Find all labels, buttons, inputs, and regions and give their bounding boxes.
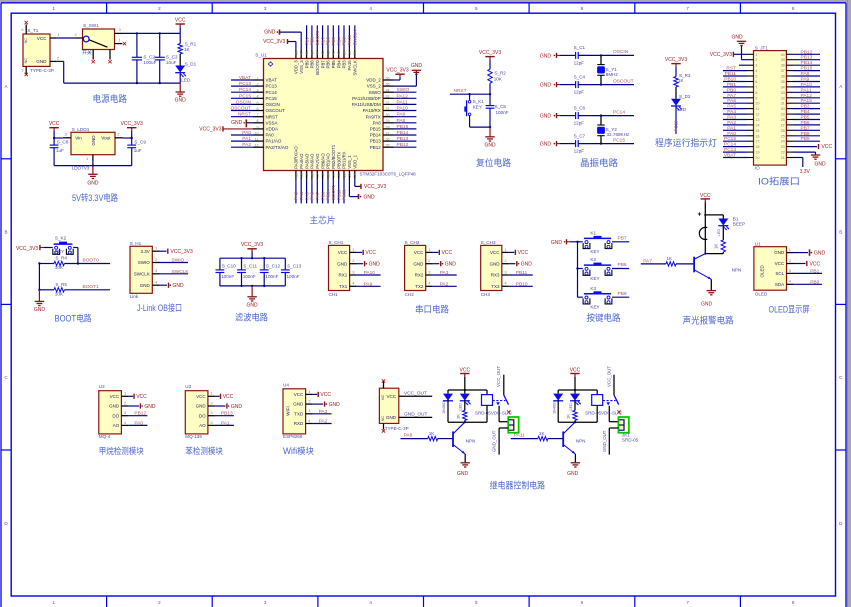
svg-text:PB7: PB7	[320, 60, 325, 69]
svg-text:3: 3	[264, 600, 267, 605]
connector S_H1 Link body	[130, 241, 153, 299]
net label PC15	[613, 137, 625, 143]
svg-text:25: 25	[386, 144, 390, 148]
svg-text:PA15: PA15	[801, 98, 813, 104]
svg-text:RXD: RXD	[294, 421, 304, 426]
row label C left	[4, 375, 8, 380]
svg-text:GND: GND	[144, 404, 156, 410]
svg-text:K1: K1	[590, 231, 596, 236]
title 串口电路	[415, 304, 450, 315]
MCU pin 5 OSCIN	[253, 101, 280, 107]
svg-text:LED: LED	[569, 403, 573, 411]
svg-text:3: 3	[755, 64, 757, 68]
ground symbol BOOT	[34, 290, 46, 313]
svg-text:PA12/USB/DP: PA12/USB/DP	[352, 96, 381, 101]
svg-text:12pF: 12pF	[574, 121, 585, 126]
svg-text:100nF: 100nF	[287, 274, 300, 279]
no-connect X relay throw JK-L	[507, 410, 510, 413]
title 滤波电路	[235, 312, 269, 323]
svg-text:10: 10	[255, 131, 259, 135]
column label 3 top	[264, 6, 267, 11]
wire emitter to ground (alarm)	[710, 279, 712, 290]
svg-text:16: 16	[310, 173, 314, 177]
svg-text:GND: GND	[814, 162, 826, 168]
svg-text:U1: U1	[755, 241, 761, 246]
power port VCC (U3)	[215, 394, 234, 400]
wire/net label PB7 (MCU top)	[320, 25, 325, 49]
title 晶振电路	[580, 157, 619, 168]
svg-text:S_C6: S_C6	[574, 105, 586, 110]
column label 5 bottom	[475, 600, 478, 605]
MCU pin 38 PA15 (top)	[347, 49, 352, 70]
wire/net label PA7 (MCU bottom)	[315, 180, 320, 204]
svg-text:AO: AO	[113, 423, 120, 428]
wire/net label BOOT1 (MCU bottom)	[331, 180, 336, 204]
wire/net label PA0 (U2)	[128, 420, 147, 426]
svg-text:VSS_3: VSS_3	[299, 60, 304, 74]
svg-text:PA8: PA8	[801, 71, 810, 77]
pin LDO-3 Vin	[63, 132, 71, 138]
net label OSCOUT	[613, 78, 634, 84]
svg-text:30: 30	[781, 107, 785, 111]
svg-text:PB6: PB6	[326, 37, 331, 46]
svg-text:S_C7: S_C7	[574, 133, 586, 138]
svg-text:BOOT1: BOOT1	[83, 284, 100, 290]
svg-text:VCC_3V3: VCC_3V3	[16, 246, 38, 252]
sheet chrome gray top strip	[0, 0, 851, 2]
svg-text:PB9: PB9	[801, 136, 810, 142]
svg-text:18: 18	[755, 145, 759, 149]
svg-text:OSCOUT: OSCOUT	[230, 106, 251, 112]
row label B left	[4, 230, 7, 235]
wire/net label PB0 (header left)	[723, 87, 747, 93]
ground symbol MCU right	[412, 70, 421, 74]
column label 2 top	[158, 6, 161, 11]
wire/net label VBAT (MCU left)	[231, 75, 253, 81]
svg-text:S_K2: S_K2	[55, 236, 67, 241]
svg-text:GND: GND	[540, 142, 552, 148]
svg-text:PA4: PA4	[299, 191, 304, 200]
svg-text:PC15: PC15	[724, 136, 736, 142]
svg-text:主芯片: 主芯片	[310, 215, 336, 226]
wire/net label PA11 (header right)	[793, 87, 820, 93]
MCU pin 10 PA0	[253, 131, 274, 137]
svg-text:LED: LED	[716, 229, 721, 237]
power port VCC_3V3 (MCU right)	[386, 68, 408, 77]
svg-text:复位电路: 复位电路	[476, 157, 512, 168]
header pin 3	[747, 64, 757, 68]
svg-text:2: 2	[755, 58, 757, 62]
pin OLED-2	[787, 258, 794, 264]
svg-text:100nF: 100nF	[221, 274, 234, 279]
svg-text:PC13: PC13	[724, 147, 736, 153]
svg-text:VCC: VCC	[822, 144, 833, 150]
svg-text:21: 21	[337, 173, 341, 177]
svg-text:PA8: PA8	[404, 432, 413, 438]
header pin 24	[781, 140, 793, 144]
svg-text:44: 44	[316, 51, 320, 55]
wire/net label PA3 (MCU bottom)	[294, 180, 299, 204]
wire/net label PB6 (key K2)	[612, 262, 629, 268]
svg-text:S_C11: S_C11	[243, 263, 257, 268]
wire/net label PB1 (MCU bottom)	[326, 180, 331, 204]
module U2 MQ-4 body	[99, 384, 122, 439]
wire/net label PB15 (MCU right)	[394, 124, 417, 130]
wire/net label PB8 (MCU top)	[310, 25, 315, 49]
header pin 21	[781, 156, 793, 160]
svg-text:SRD-05VDC-SL-C: SRD-05VDC-SL-C	[475, 411, 512, 416]
net VCC_OUT stub (relay common JK1)	[606, 366, 614, 395]
wire/net label PA15 (MCU top)	[347, 25, 352, 49]
title 甲烷检测模块	[99, 445, 144, 456]
svg-text:35: 35	[386, 83, 390, 87]
title Wifi模块	[283, 445, 314, 456]
svg-text:PA7: PA7	[727, 93, 736, 99]
svg-text:PB10/TX: PB10/TX	[336, 151, 341, 168]
svg-text:PB1: PB1	[326, 191, 331, 200]
svg-text:VCC: VCC	[365, 250, 376, 256]
column label 7 bottom	[686, 600, 689, 605]
sheet chrome gray right strip	[847, 0, 851, 607]
wire/net label PA4 (MCU bottom)	[299, 180, 304, 204]
svg-text:1K: 1K	[566, 414, 571, 419]
svg-text:B: B	[839, 230, 842, 235]
svg-text:4: 4	[257, 95, 259, 99]
power port VCC_3V3 (MCU bottom)	[361, 184, 386, 190]
svg-text:LED: LED	[459, 403, 463, 411]
wire/net label NRST	[450, 88, 490, 94]
power port VCC_3V3 (LDO output)	[121, 121, 143, 131]
wire/net label PB5 (header right)	[793, 115, 820, 121]
svg-text:14: 14	[755, 123, 759, 127]
svg-text:PC13: PC13	[674, 120, 679, 132]
power port VCC_3V3 (filter)	[241, 242, 263, 252]
relay bottom rail wire	[558, 421, 597, 423]
power port VCC (relay JK1)	[570, 367, 581, 376]
svg-text:继电器控制电路: 继电器控制电路	[490, 479, 546, 490]
svg-text:23: 23	[781, 145, 785, 149]
svg-text:S_CH3: S_CH3	[481, 240, 496, 245]
svg-text:PA10: PA10	[364, 270, 376, 276]
svg-text:GND: GND	[814, 250, 826, 256]
pin CH3-2	[502, 258, 509, 264]
wire/net label PB10 (CH3 TX)	[509, 281, 533, 287]
svg-text:10uF: 10uF	[166, 60, 177, 65]
wire VSS_2 to GND	[394, 75, 417, 87]
svg-text:GND: GND	[87, 180, 99, 186]
svg-text:PB13: PB13	[397, 136, 409, 142]
svg-text:8: 8	[257, 119, 259, 123]
ground rail wire power block	[64, 82, 181, 84]
svg-text:GND: GND	[701, 302, 713, 308]
svg-text:VBAT: VBAT	[239, 75, 251, 81]
resistor S_R1 1K	[178, 33, 182, 54]
wire VCC to Vin	[53, 137, 63, 139]
svg-text:VSS_1: VSS_1	[347, 155, 352, 169]
svg-text:33: 33	[781, 91, 785, 95]
wire/net label PB10 (header left)	[723, 77, 747, 83]
svg-text:SRD-05: SRD-05	[622, 437, 639, 442]
svg-text:PB8: PB8	[310, 37, 315, 46]
pin U2-2	[121, 400, 128, 406]
svg-text:VDDA: VDDA	[266, 127, 279, 132]
wire/net label PB14 (header right)	[793, 60, 820, 66]
svg-text:GND: GND	[293, 402, 304, 407]
MCU pin 32 PA11/USB/DM	[352, 101, 394, 107]
svg-text:3.3V: 3.3V	[800, 169, 811, 175]
pin CH2-2	[426, 258, 433, 264]
svg-text:GND: GND	[457, 471, 469, 477]
svg-text:S_C8: S_C8	[57, 140, 69, 145]
svg-text:6: 6	[755, 80, 757, 84]
svg-text:4: 4	[755, 69, 757, 73]
svg-text:S_R2: S_R2	[495, 71, 507, 76]
svg-text:S_H1: S_H1	[130, 241, 142, 246]
svg-text:OLED显示屏: OLED显示屏	[769, 304, 810, 314]
svg-text:GND: GND	[175, 98, 187, 104]
module U3 MQ-135 body	[185, 384, 208, 439]
svg-text:VCC: VCC	[490, 250, 500, 255]
svg-text:NPN: NPN	[466, 438, 476, 443]
header pin 31	[781, 102, 793, 106]
MCU pin 14 PA4/AO (bottom)	[299, 153, 304, 180]
svg-text:12: 12	[255, 144, 259, 148]
column tick 1 top	[106, 3, 108, 13]
svg-text:PA11: PA11	[514, 432, 525, 438]
svg-text:VCC: VCC	[110, 394, 120, 399]
column tick 7 bottom	[739, 596, 741, 607]
svg-text:PA5/AO: PA5/AO	[304, 153, 309, 169]
svg-text:20: 20	[332, 173, 336, 177]
MCU pin 33 PA12/USB/DP	[352, 95, 393, 101]
relay bottom rail wire	[448, 421, 487, 423]
svg-text:GND: GND	[411, 63, 423, 69]
wire/net label PB13 (MCU right)	[394, 136, 417, 142]
header pin 25	[781, 134, 793, 138]
header pin 15	[747, 129, 760, 133]
capacitor S_C1 12pF	[560, 52, 578, 59]
svg-text:PA2: PA2	[319, 419, 328, 425]
wire VDD_3 to VCC_3V3 (top)	[288, 42, 296, 50]
MCU pin 39 PB3 (top)	[342, 49, 347, 68]
wire/net label PB14 (MCU right)	[394, 130, 417, 136]
svg-text:声光报警电路: 声光报警电路	[683, 314, 735, 325]
svg-text:GND: GND	[551, 240, 563, 246]
column tick 3 top	[317, 3, 319, 13]
svg-text:GND: GND	[567, 471, 579, 477]
net label OSCIN	[613, 49, 629, 55]
svg-text:NC: NC	[380, 394, 385, 400]
svg-text:PB10: PB10	[516, 281, 528, 287]
pin CH3-4	[502, 281, 509, 287]
svg-text:GND: GND	[231, 404, 243, 410]
wire/net label PA5 (MCU bottom)	[304, 180, 309, 204]
svg-text:100nF: 100nF	[243, 274, 256, 279]
svg-text:2: 2	[257, 83, 259, 87]
svg-text:GND: GND	[34, 307, 46, 313]
switch pin 3 to VCC rail wire	[115, 27, 181, 33]
header pin 33	[781, 91, 793, 95]
pin U2-3	[121, 410, 128, 416]
power port VCC_3V3 (reset)	[479, 50, 501, 60]
svg-text:48: 48	[294, 51, 298, 55]
svg-text:6: 6	[257, 107, 259, 111]
svg-text:PA10: PA10	[397, 106, 409, 112]
pin U4-2	[306, 399, 313, 405]
svg-text:VCC: VCC	[196, 394, 206, 399]
svg-text:PB7: PB7	[618, 235, 627, 241]
svg-text:5: 5	[755, 75, 757, 79]
header pin 39	[781, 58, 793, 62]
svg-text:GND: GND	[231, 120, 243, 126]
svg-text:30: 30	[386, 113, 390, 117]
svg-text:VCC_OUT: VCC_OUT	[606, 366, 611, 387]
svg-text:S_C1: S_C1	[574, 45, 586, 50]
pin LDO-2 Vout	[115, 132, 123, 138]
wire/net label PA3 (U4)	[313, 409, 332, 415]
MCU pin 2 PC13	[253, 83, 277, 89]
wire/net label PA10 (CH1 RX)	[357, 270, 381, 276]
header pin 18	[747, 145, 760, 149]
capacitor S_C6 12pF	[560, 112, 578, 119]
svg-text:AO: AO	[199, 423, 206, 428]
wire/net label NRST (MCU left)	[231, 112, 253, 118]
wire/net label PB12 (MCU right)	[394, 142, 417, 148]
power port VCC_3V3 (BOOT)	[16, 245, 44, 252]
svg-text:PA1: PA1	[242, 136, 251, 142]
svg-text:VCC: VCC	[37, 36, 47, 41]
no-connect X relay throw JK1	[617, 410, 620, 413]
svg-text:PB13: PB13	[370, 139, 382, 144]
svg-text:BOOT0: BOOT0	[83, 258, 100, 264]
header pin 30	[781, 107, 793, 111]
wire/net label RST (header left)	[723, 66, 747, 72]
connector S_CH3 body	[481, 240, 502, 297]
svg-text:VSSA: VSSA	[266, 120, 278, 125]
MCU pin 1 VBAT	[253, 76, 277, 82]
pin U3-3	[208, 410, 215, 416]
header pin 19	[747, 151, 760, 155]
svg-text:PB15: PB15	[397, 124, 409, 130]
diode 1N4007 (relay JK1)	[553, 390, 563, 422]
power port GND (J-Link)	[160, 283, 185, 289]
column label 5 top	[475, 6, 478, 11]
svg-text:U2: U2	[99, 384, 105, 389]
svg-text:46: 46	[305, 51, 309, 55]
column tick 5 top	[528, 3, 530, 13]
svg-text:BEEP: BEEP	[733, 221, 745, 226]
svg-text:13: 13	[755, 118, 759, 122]
header pin 35	[781, 80, 793, 84]
svg-text:SWIO: SWIO	[397, 87, 410, 93]
svg-text:GND: GND	[247, 302, 259, 308]
svg-text:VSS_2: VSS_2	[367, 84, 382, 89]
svg-text:33: 33	[386, 95, 390, 99]
svg-text:PA7: PA7	[643, 258, 652, 264]
connector TYPE-C-2P (relay power)	[379, 388, 408, 431]
power port VCC (header pin 23)	[793, 144, 832, 150]
svg-text:VCC_3V3: VCC_3V3	[386, 68, 408, 74]
svg-text:VCC_3V3: VCC_3V3	[364, 184, 386, 190]
svg-text:PA3: PA3	[294, 191, 299, 200]
relay contact (relay JK1)	[603, 395, 619, 422]
relay coil (relay JK-L)	[482, 390, 493, 422]
svg-text:MQ-4: MQ-4	[99, 434, 111, 439]
keys left rail wire	[570, 241, 579, 298]
header pin 40	[781, 53, 793, 57]
row tick 3 left	[1, 449, 11, 451]
power port GND (keys)	[551, 239, 570, 246]
wire base resistor to transistor JK1	[548, 438, 563, 440]
connector S_T1 TYPE-C-2P	[23, 28, 54, 73]
ground symbol filter	[247, 286, 259, 308]
header pin 12	[747, 113, 760, 117]
wire header pin 3	[739, 64, 747, 66]
crystal S_Y1 8MHz	[597, 55, 618, 84]
capacitor S_C12 100nF	[260, 258, 269, 286]
svg-text:PB10: PB10	[724, 77, 736, 83]
svg-text:PA5: PA5	[304, 191, 309, 200]
wire/net label PA9 (header right)	[793, 77, 820, 83]
wire/net label PB3 (header right)	[793, 104, 820, 110]
capacitor S_C9 1uF	[127, 138, 136, 166]
svg-text:12pF: 12pF	[574, 149, 585, 154]
power port VCC (CH2)	[433, 250, 453, 256]
svg-text:VCC_OUT: VCC_OUT	[496, 366, 501, 387]
svg-text:PB4: PB4	[801, 109, 810, 115]
resistor S_R5 10K	[39, 288, 64, 292]
svg-text:29: 29	[781, 113, 785, 117]
wire/net label PA6 (header left)	[723, 98, 747, 104]
svg-text:PB4: PB4	[336, 37, 341, 46]
wire base resistor to transistor	[676, 263, 694, 265]
column label 1 top	[53, 6, 56, 11]
power port VCC (LDO input)	[49, 121, 60, 131]
svg-text:PB5: PB5	[801, 115, 810, 121]
svg-text:PC13: PC13	[266, 84, 278, 89]
svg-text:PA0: PA0	[134, 420, 143, 426]
title 主芯片	[310, 215, 336, 226]
switch bottom pin stub 1	[92, 50, 95, 64]
power port GND (PC15 row)	[540, 141, 560, 148]
wire/net label PB0 (MCU bottom)	[320, 180, 325, 204]
svg-text:GND: GND	[91, 135, 96, 146]
svg-text:22: 22	[781, 151, 785, 155]
wire/net label PB4 (MCU top)	[336, 25, 341, 49]
wire/net label OSCIN (MCU left)	[231, 99, 253, 105]
svg-text:苯检测模块: 苯检测模块	[185, 445, 223, 456]
svg-text:S_K1: S_K1	[473, 99, 485, 104]
pin U4-3	[306, 408, 313, 414]
svg-text:14: 14	[300, 173, 304, 177]
svg-text:NPN: NPN	[576, 438, 586, 443]
svg-text:5: 5	[22, 69, 24, 73]
wire/net label VBAT (header left)	[723, 153, 747, 159]
svg-text:VBAT: VBAT	[266, 78, 278, 83]
push button S_K1 KEY	[465, 93, 490, 127]
svg-text:PA9: PA9	[364, 281, 373, 287]
wire/net label PA9 (CH1 TX)	[357, 281, 381, 287]
svg-text:VCC: VCC	[338, 250, 348, 255]
switch S_SW1	[76, 23, 115, 56]
title J-Link OB接口	[137, 302, 182, 313]
svg-text:23: 23	[348, 173, 352, 177]
power port VCC_3V3 (J-Link)	[160, 249, 193, 255]
column tick 4 bottom	[423, 596, 425, 607]
svg-text:SWIO: SWIO	[138, 260, 150, 265]
svg-text:7: 7	[686, 600, 689, 605]
svg-text:47: 47	[300, 51, 304, 55]
